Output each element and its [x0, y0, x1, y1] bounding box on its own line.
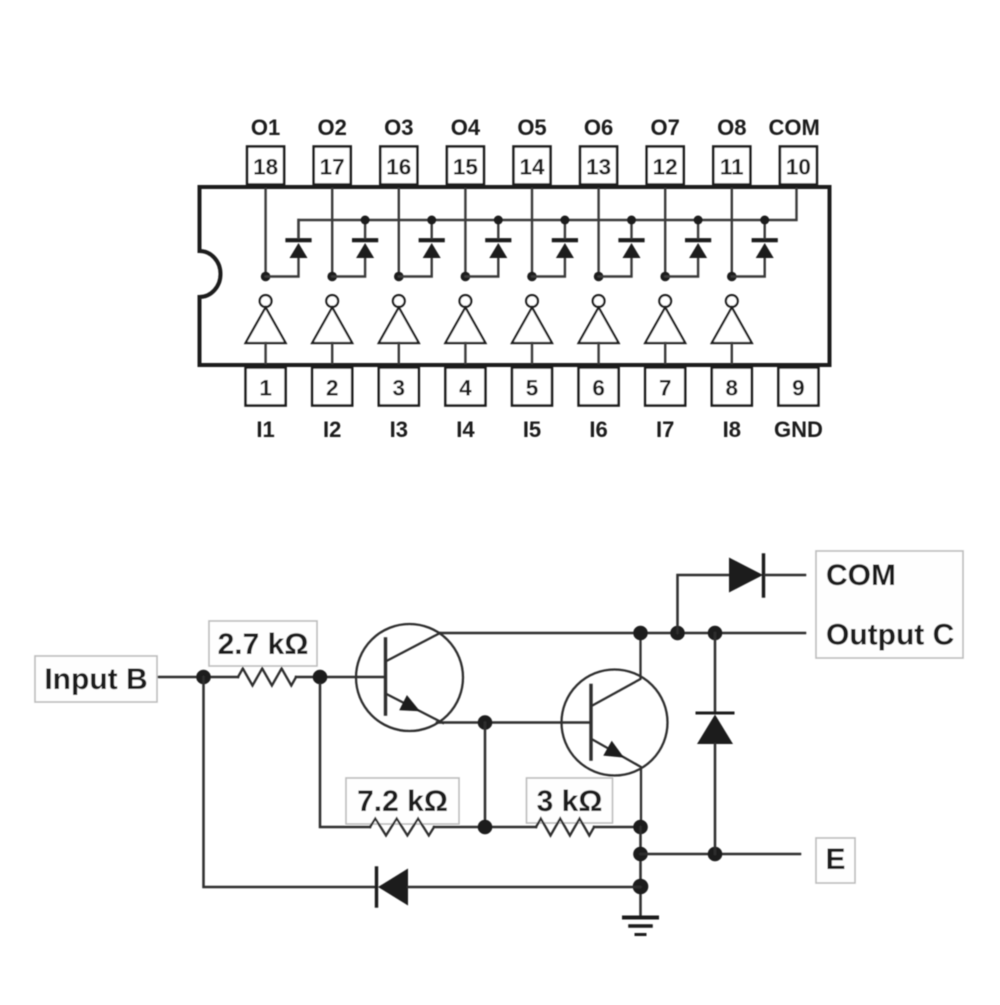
node E4 junction dot — [708, 847, 723, 862]
inverter buffer 7 bubble — [659, 295, 671, 307]
node 5 junction dot — [527, 272, 537, 282]
inverter buffer 2 bubble — [326, 295, 338, 307]
rail junction dot D2 — [361, 216, 370, 225]
rail junction dot D8 — [760, 216, 769, 225]
wire R1 to Q1 base — [296, 676, 385, 679]
inverter buffer 4 bubble — [460, 295, 472, 307]
rail junction dot D3 — [427, 216, 436, 225]
svg-text:3 kΩ: 3 kΩ — [537, 785, 603, 818]
wire node 1 to diode D1 — [266, 258, 299, 277]
svg-text:1: 1 — [259, 376, 272, 401]
inverter buffer 3 bubble — [393, 295, 405, 307]
Q2 collector — [592, 633, 641, 706]
node C3 junction dot — [708, 626, 723, 641]
svg-text:7: 7 — [659, 376, 672, 401]
inverter buffer 3 triangle — [379, 308, 419, 344]
node D junction dot — [478, 715, 493, 730]
pin 14 box — [514, 147, 551, 185]
collector rail wire to Output C — [440, 632, 805, 635]
svg-text:18: 18 — [253, 155, 278, 180]
resistor R1 2.7 kOhm zigzag — [238, 669, 296, 686]
wire Q1 emitter to node D (Darlington base) — [437, 721, 591, 724]
wire node C2 up to COM diode — [678, 575, 730, 633]
node 7 junction dot — [660, 272, 670, 282]
wire buffer 8 to pin 8 — [731, 343, 733, 363]
pin 5 box — [512, 368, 552, 406]
svg-text:9: 9 — [792, 376, 805, 401]
svg-text:I8: I8 — [723, 417, 741, 442]
inverter buffer 6 bubble — [593, 295, 605, 307]
Input B terminal box — [35, 656, 157, 702]
svg-text:I2: I2 — [323, 417, 341, 442]
rail junction dot D4 — [494, 216, 503, 225]
diode D7 (to COM rail) — [687, 220, 709, 258]
inverter buffer 6 triangle — [579, 308, 619, 344]
Q1 emitter with arrow — [387, 694, 444, 723]
pin 3 box — [379, 368, 419, 406]
node E1 junction dot — [633, 820, 648, 835]
diode D1 (to COM rail) — [288, 220, 310, 258]
pin 4 box — [445, 368, 485, 406]
node 8 junction dot — [727, 272, 737, 282]
wire node E1 down to ground — [639, 827, 642, 916]
wire buffer 1 to pin 1 — [264, 343, 266, 363]
node E3 junction dot — [633, 879, 649, 895]
node R junction dot — [478, 820, 493, 835]
svg-text:17: 17 — [320, 155, 345, 180]
diode D10 to COM — [729, 555, 805, 596]
transistor Q1 circle — [356, 624, 463, 731]
rail junction dot D5 — [560, 216, 569, 225]
resistor R2 7.2 kOhm zigzag — [370, 819, 434, 836]
svg-text:5: 5 — [526, 376, 539, 401]
svg-text:O3: O3 — [384, 115, 413, 140]
svg-text:Input B: Input B — [44, 663, 147, 696]
svg-text:O2: O2 — [318, 115, 347, 140]
node C2 junction dot — [670, 626, 685, 641]
wire pin 12 to node 7 — [664, 189, 666, 277]
wire pin 14 to node 5 — [531, 189, 533, 277]
wire emitter line to E terminal — [641, 853, 801, 856]
wire node D down to resistor node — [484, 723, 487, 828]
inverter buffer 8 bubble — [726, 295, 738, 307]
wire buffer 7 to pin 7 — [664, 343, 666, 363]
inverter buffer 5 triangle — [512, 308, 552, 344]
R2 value label box 7.2 kOhm — [346, 778, 459, 824]
wire node 8 to diode D8 — [732, 258, 765, 277]
pin 8 box — [712, 368, 752, 406]
diode D12 (input clamp, pointing left) — [377, 868, 641, 906]
COM rail net to pin 10 — [299, 189, 797, 240]
R1 value label box 2.7 kOhm — [209, 621, 317, 666]
Q2 emitter with arrow — [592, 739, 642, 820]
wire buffer 3 to pin 3 — [398, 343, 400, 363]
wire node 4 to diode D4 — [465, 258, 498, 277]
svg-text:13: 13 — [586, 155, 611, 180]
node E2 junction dot — [633, 847, 648, 862]
svg-text:O5: O5 — [517, 115, 546, 140]
wire buffer 4 to pin 4 — [464, 343, 466, 363]
diode D8 (to COM rail) — [754, 220, 776, 258]
svg-text:COM: COM — [826, 559, 896, 592]
pin 7 box — [645, 368, 685, 406]
svg-text:I6: I6 — [589, 417, 607, 442]
pin 1 box — [246, 368, 286, 406]
pin 6 box — [579, 368, 619, 406]
inverter buffer 5 bubble — [526, 295, 538, 307]
inverter buffer 1 triangle — [246, 308, 286, 344]
svg-text:COM: COM — [769, 115, 820, 140]
rail junction dot D7 — [694, 216, 703, 225]
svg-text:I1: I1 — [256, 417, 274, 442]
svg-text:I5: I5 — [523, 417, 541, 442]
wire pin 17 to node 2 — [331, 189, 333, 277]
pin 15 box — [447, 147, 484, 185]
COM / Output C terminal box — [816, 551, 963, 658]
svg-text:8: 8 — [726, 376, 739, 401]
svg-text:O8: O8 — [717, 115, 746, 140]
svg-text:11: 11 — [720, 155, 744, 180]
ground symbol — [624, 918, 657, 935]
rail junction dot D6 — [627, 216, 636, 225]
pin 10 box — [780, 147, 817, 185]
wire node 2 to diode D2 — [332, 258, 365, 277]
svg-text:O7: O7 — [651, 115, 680, 140]
svg-text:I4: I4 — [456, 417, 475, 442]
svg-text:6: 6 — [592, 376, 605, 401]
wire Input B to node B1 — [159, 676, 238, 679]
diode D2 (to COM rail) — [354, 220, 376, 258]
wire pin 13 to node 6 — [597, 189, 599, 277]
inverter buffer 1 bubble — [260, 295, 272, 307]
svg-text:2: 2 — [326, 376, 339, 401]
wire R3 to node E1 — [594, 826, 641, 829]
resistor R3 3 kOhm zigzag — [536, 819, 594, 836]
wire pin 15 to node 4 — [464, 189, 466, 277]
wire R2 to node R — [434, 826, 536, 829]
wire buffer 6 to pin 6 — [597, 343, 599, 363]
svg-text:Output C: Output C — [826, 619, 954, 652]
transistor Q2 circle — [562, 670, 668, 776]
pin 18 box — [247, 147, 284, 185]
wire pin 16 to node 3 — [398, 189, 400, 277]
inverter buffer 2 triangle — [312, 308, 352, 344]
wire buffer 2 to pin 2 — [331, 343, 333, 363]
pin 13 box — [580, 147, 617, 185]
svg-text:I7: I7 — [656, 417, 674, 442]
svg-text:2.7 kΩ: 2.7 kΩ — [218, 628, 309, 661]
IC body DIP-18 outline with index notch — [200, 187, 830, 365]
diode D11 (C to E clamp) — [697, 633, 733, 854]
R3 value label box 3 kOhm — [527, 778, 613, 823]
svg-text:O6: O6 — [584, 115, 613, 140]
node B2 junction dot — [313, 670, 328, 685]
wire node 6 to diode D6 — [599, 258, 632, 277]
node 1 junction dot — [261, 272, 271, 282]
Q1 collector — [387, 633, 441, 661]
wire buffer 5 to pin 5 — [531, 343, 533, 363]
svg-text:15: 15 — [453, 155, 478, 180]
svg-text:E: E — [825, 843, 845, 876]
svg-text:I3: I3 — [390, 417, 408, 442]
E terminal box — [816, 838, 855, 883]
Q2 base bar — [589, 686, 592, 760]
node 2 junction dot — [327, 272, 337, 282]
inverter buffer 8 triangle — [712, 308, 752, 344]
pin 12 box — [647, 147, 684, 185]
wire node B1 down and right to input clamp diode — [204, 677, 376, 887]
pin 11 box — [713, 147, 750, 185]
wire pin 18 to node 1 — [264, 189, 266, 277]
node B1 junction dot — [196, 670, 211, 685]
node 4 junction dot — [461, 272, 471, 282]
inverter buffer 7 triangle — [645, 308, 685, 344]
node C1 junction dot — [633, 626, 648, 641]
diode D3 (to COM rail) — [421, 220, 443, 258]
node 6 junction dot — [594, 272, 604, 282]
pin 9 box — [778, 368, 818, 406]
svg-text:O4: O4 — [451, 115, 481, 140]
wire node 3 to diode D3 — [399, 258, 432, 277]
svg-text:10: 10 — [786, 155, 811, 180]
svg-text:4: 4 — [459, 376, 472, 401]
wire node B2 down to R2 — [320, 684, 370, 827]
svg-text:16: 16 — [386, 155, 411, 180]
diode D5 (to COM rail) — [554, 220, 576, 258]
diode D4 (to COM rail) — [487, 220, 509, 258]
wire node 5 to diode D5 — [532, 258, 565, 277]
svg-text:12: 12 — [653, 155, 678, 180]
wire pin 11 to node 8 — [731, 189, 733, 277]
wire node 7 to diode D7 — [665, 258, 698, 277]
inverter buffer 4 triangle — [445, 308, 485, 344]
Q1 base bar — [384, 639, 387, 714]
svg-text:3: 3 — [393, 376, 406, 401]
pin 16 box — [380, 147, 417, 185]
svg-text:14: 14 — [519, 155, 545, 180]
pin 17 box — [314, 147, 351, 185]
svg-text:7.2 kΩ: 7.2 kΩ — [357, 785, 448, 818]
diode D6 (to COM rail) — [621, 220, 643, 258]
node 3 junction dot — [394, 272, 404, 282]
svg-text:O1: O1 — [251, 115, 280, 140]
svg-text:GND: GND — [774, 417, 823, 442]
pin 2 box — [312, 368, 352, 406]
